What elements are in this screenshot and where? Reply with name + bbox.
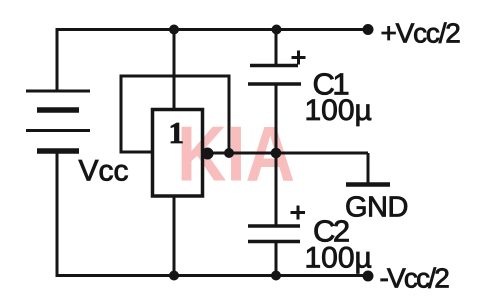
terminal dot +Vcc/2 bbox=[363, 24, 374, 35]
wire mid node to C2 positive plate bbox=[275, 153, 278, 225]
wire IC top pin to top rail bbox=[173, 30, 176, 110]
capacitor C2 plates bbox=[248, 226, 300, 242]
battery Vcc bbox=[26, 91, 90, 151]
junction node IC right pin bbox=[202, 148, 214, 160]
wire bottom rail bbox=[56, 274, 369, 277]
capacitor C1 polarity plus bbox=[292, 51, 306, 65]
wire IC bottom pin to bottom rail bbox=[173, 196, 176, 276]
svg-text:Vcc: Vcc bbox=[79, 155, 129, 188]
svg-text:-Vcc/2: -Vcc/2 bbox=[380, 263, 450, 294]
wire vertical drop to ground symbol bbox=[367, 153, 370, 183]
svg-text:100µ: 100µ bbox=[305, 94, 372, 127]
wire battery negative to bottom rail bbox=[56, 152, 59, 277]
svg-text:1: 1 bbox=[169, 115, 185, 150]
junction node bottom rail / C2 bbox=[271, 271, 281, 281]
capacitor C1 plates bbox=[248, 66, 301, 85]
svg-text:100µ: 100µ bbox=[305, 242, 372, 275]
wire C1 negative plate to mid node bbox=[275, 85, 278, 154]
ground symbol bbox=[346, 182, 390, 187]
IC U1 box bbox=[153, 110, 203, 197]
wire feedback bracket from IC left pin around top to IC right pin node bbox=[121, 76, 229, 153]
svg-text:+Vcc/2: +Vcc/2 bbox=[381, 18, 461, 49]
junction node bracket / output wire bbox=[224, 148, 234, 158]
wire C2 negative plate to bottom rail bbox=[275, 242, 278, 276]
terminal dot -Vcc/2 bbox=[363, 271, 374, 282]
wire left vertical from top rail to battery bbox=[56, 28, 59, 90]
junction node top rail / IC top pin bbox=[169, 25, 179, 35]
junction node top rail / C1 bbox=[272, 25, 282, 35]
wire output from IC right pin to GND drop bbox=[203, 152, 369, 155]
wire top rail to C1 positive plate bbox=[275, 30, 278, 65]
svg-text:GND: GND bbox=[345, 192, 408, 224]
junction node bottom rail / IC bottom pin bbox=[169, 271, 179, 281]
junction node C1-C2 midpoint bbox=[271, 148, 282, 159]
wire top rail bbox=[56, 28, 369, 31]
capacitor C2 polarity plus bbox=[291, 206, 306, 220]
